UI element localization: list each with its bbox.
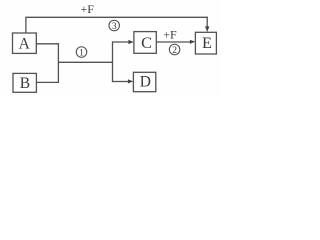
node 2 circled [169, 44, 180, 56]
block C [134, 32, 156, 54]
block B [13, 73, 36, 92]
wire B output [36, 81, 58, 83]
wire split vertical [112, 41, 114, 82]
block D [133, 72, 155, 91]
node 1 circled [76, 47, 87, 59]
arrowhead into E [190, 40, 195, 44]
svg-text:2: 2 [172, 46, 177, 56]
wire branch to D [113, 81, 129, 83]
arrowhead into C [128, 40, 133, 44]
svg-text:B: B [20, 75, 30, 92]
wire top feedback rail [25, 16, 208, 18]
svg-text:E: E [202, 33, 212, 52]
svg-text:D: D [140, 74, 151, 91]
svg-text:A: A [19, 36, 31, 53]
wire trunk [58, 61, 112, 63]
wire drop into E top [206, 17, 208, 28]
svg-text:+F: +F [80, 2, 94, 16]
block A [13, 33, 37, 53]
svg-text:C: C [141, 33, 152, 52]
svg-text:+F: +F [163, 27, 177, 41]
svg-text:1: 1 [79, 48, 84, 58]
block E [195, 32, 216, 54]
wire A output [36, 43, 58, 45]
arrowhead into E top [205, 26, 209, 32]
wire branch to C [113, 41, 129, 43]
wire merge vertical [57, 43, 59, 83]
node 3 circled [109, 20, 120, 32]
svg-text:3: 3 [112, 22, 117, 32]
arrowhead into D [128, 79, 133, 83]
wire C to E [156, 41, 190, 43]
wire A top vertical [25, 17, 27, 33]
